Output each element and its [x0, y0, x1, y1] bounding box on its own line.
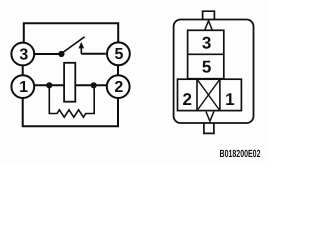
connector body outline: [174, 20, 254, 124]
wire bottom loop 1 to 2: [23, 98, 118, 126]
svg-text:1: 1: [225, 90, 234, 109]
switch blade: [61, 37, 84, 54]
resistor parallel branch with zigzag: [49, 85, 94, 117]
svg-text:2: 2: [114, 79, 123, 96]
wire switch arrow to 5: [81, 53, 106, 55]
connector top latch triangle: [205, 21, 213, 30]
wire 3 to switch contact: [35, 53, 61, 55]
junction dot right: [91, 82, 97, 88]
keyway cell verticals: [197, 79, 220, 110]
wire mid 1 to 2: [35, 84, 106, 86]
terminal circle 3: [11, 43, 34, 66]
wire stub 5-2: [117, 65, 119, 74]
connector bottom latch triangle: [206, 112, 214, 122]
switch arrowhead: [79, 42, 85, 49]
connector top tab: [203, 11, 215, 19]
svg-text:5: 5: [115, 46, 124, 63]
switch contact dot: [58, 51, 64, 57]
svg-text:3: 3: [19, 46, 28, 63]
divider between 3 and 5: [188, 53, 224, 55]
terminal circle 5: [107, 42, 130, 65]
svg-text:1: 1: [19, 79, 28, 96]
svg-text:5: 5: [202, 58, 211, 77]
connector bottom tab: [204, 123, 214, 133]
switch arrow shaft: [80, 47, 82, 53]
terminal box 3-5 column: [188, 30, 224, 78]
relay coil K1: [64, 63, 75, 102]
terminal circle 1: [11, 75, 34, 98]
svg-text:2: 2: [182, 90, 191, 109]
keyway X cross: [197, 79, 220, 110]
terminal circle 2: [107, 75, 130, 98]
wire top loop between terminals 3 and 5: [24, 23, 118, 42]
wire stub 3-1: [22, 66, 24, 75]
junction dot left: [46, 82, 52, 88]
svg-text:3: 3: [202, 34, 211, 53]
terminal row box 2-1: [178, 79, 242, 110]
svg-text:B018200E02: B018200E02: [220, 149, 261, 160]
